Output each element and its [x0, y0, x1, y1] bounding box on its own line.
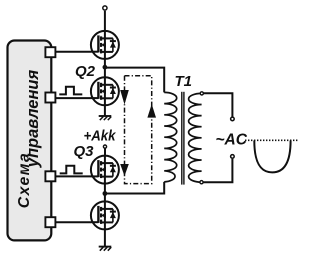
wire M1 source to Q2 drain — [104, 59, 106, 77]
svg-text:~AC: ~AC — [216, 131, 248, 148]
wire pin1 to M1 gate — [55, 51, 91, 53]
wire Q3 source to M4 drain — [104, 184, 106, 202]
svg-text:Q3: Q3 — [74, 143, 95, 160]
current arrow up (right) — [147, 104, 156, 118]
output waveform dotted baseline — [245, 139, 298, 141]
pulse waveform at pin2 — [59, 87, 82, 95]
transistor Q2 — [91, 77, 119, 105]
node A junction — [103, 65, 108, 70]
wire pin3 to Q3 gate — [55, 175, 91, 177]
transformer core — [182, 92, 184, 185]
wire pin4 to M4 gate — [55, 221, 91, 223]
ground under Q2 — [99, 116, 112, 120]
wire M4 source to ground — [104, 229, 106, 246]
wire node B to transformer primary bottom — [105, 182, 164, 194]
AC terminal 1 — [231, 117, 235, 121]
AC terminal 2 — [231, 155, 235, 159]
wire pin2 to Q2 gate — [55, 97, 91, 99]
ground under M4 — [99, 247, 112, 251]
svg-text:Q2: Q2 — [75, 63, 96, 80]
transformer secondary winding — [189, 93, 202, 182]
wire AC terminal 2 to secondary bottom — [203, 159, 232, 182]
pin square 2 — [45, 93, 55, 103]
pin square 3 — [45, 171, 55, 181]
transistor M4 — [91, 201, 119, 229]
wire Q2 source to ground — [104, 105, 106, 116]
wire terminal to M1 drain — [104, 11, 106, 31]
node B junction — [103, 191, 108, 196]
svg-text:управления: управления — [24, 69, 42, 168]
supply terminal top — [103, 6, 107, 10]
+Akk terminal — [103, 145, 106, 148]
pin square 1 — [45, 47, 55, 57]
secondary bottom lead circle — [200, 181, 203, 184]
transformer primary winding — [164, 92, 177, 181]
control box "Схема управления" — [8, 41, 52, 241]
wire node A to transformer primary top — [105, 68, 164, 93]
svg-text:T1: T1 — [175, 73, 193, 90]
transistor Q3 — [91, 156, 119, 184]
pin square 4 — [45, 217, 55, 227]
current loop dash-dot box — [125, 76, 152, 184]
wire +Akk to Q3 drain — [104, 149, 106, 156]
current arrow down (top left) — [120, 90, 129, 105]
wire secondary top to AC terminal 1 — [203, 93, 232, 116]
output half-sine wave — [254, 141, 290, 173]
transistor M1 — [91, 31, 119, 59]
current arrow down (bottom left) — [120, 164, 129, 176]
pulse waveform at pin3 — [60, 166, 83, 174]
secondary top lead circle — [200, 92, 203, 95]
